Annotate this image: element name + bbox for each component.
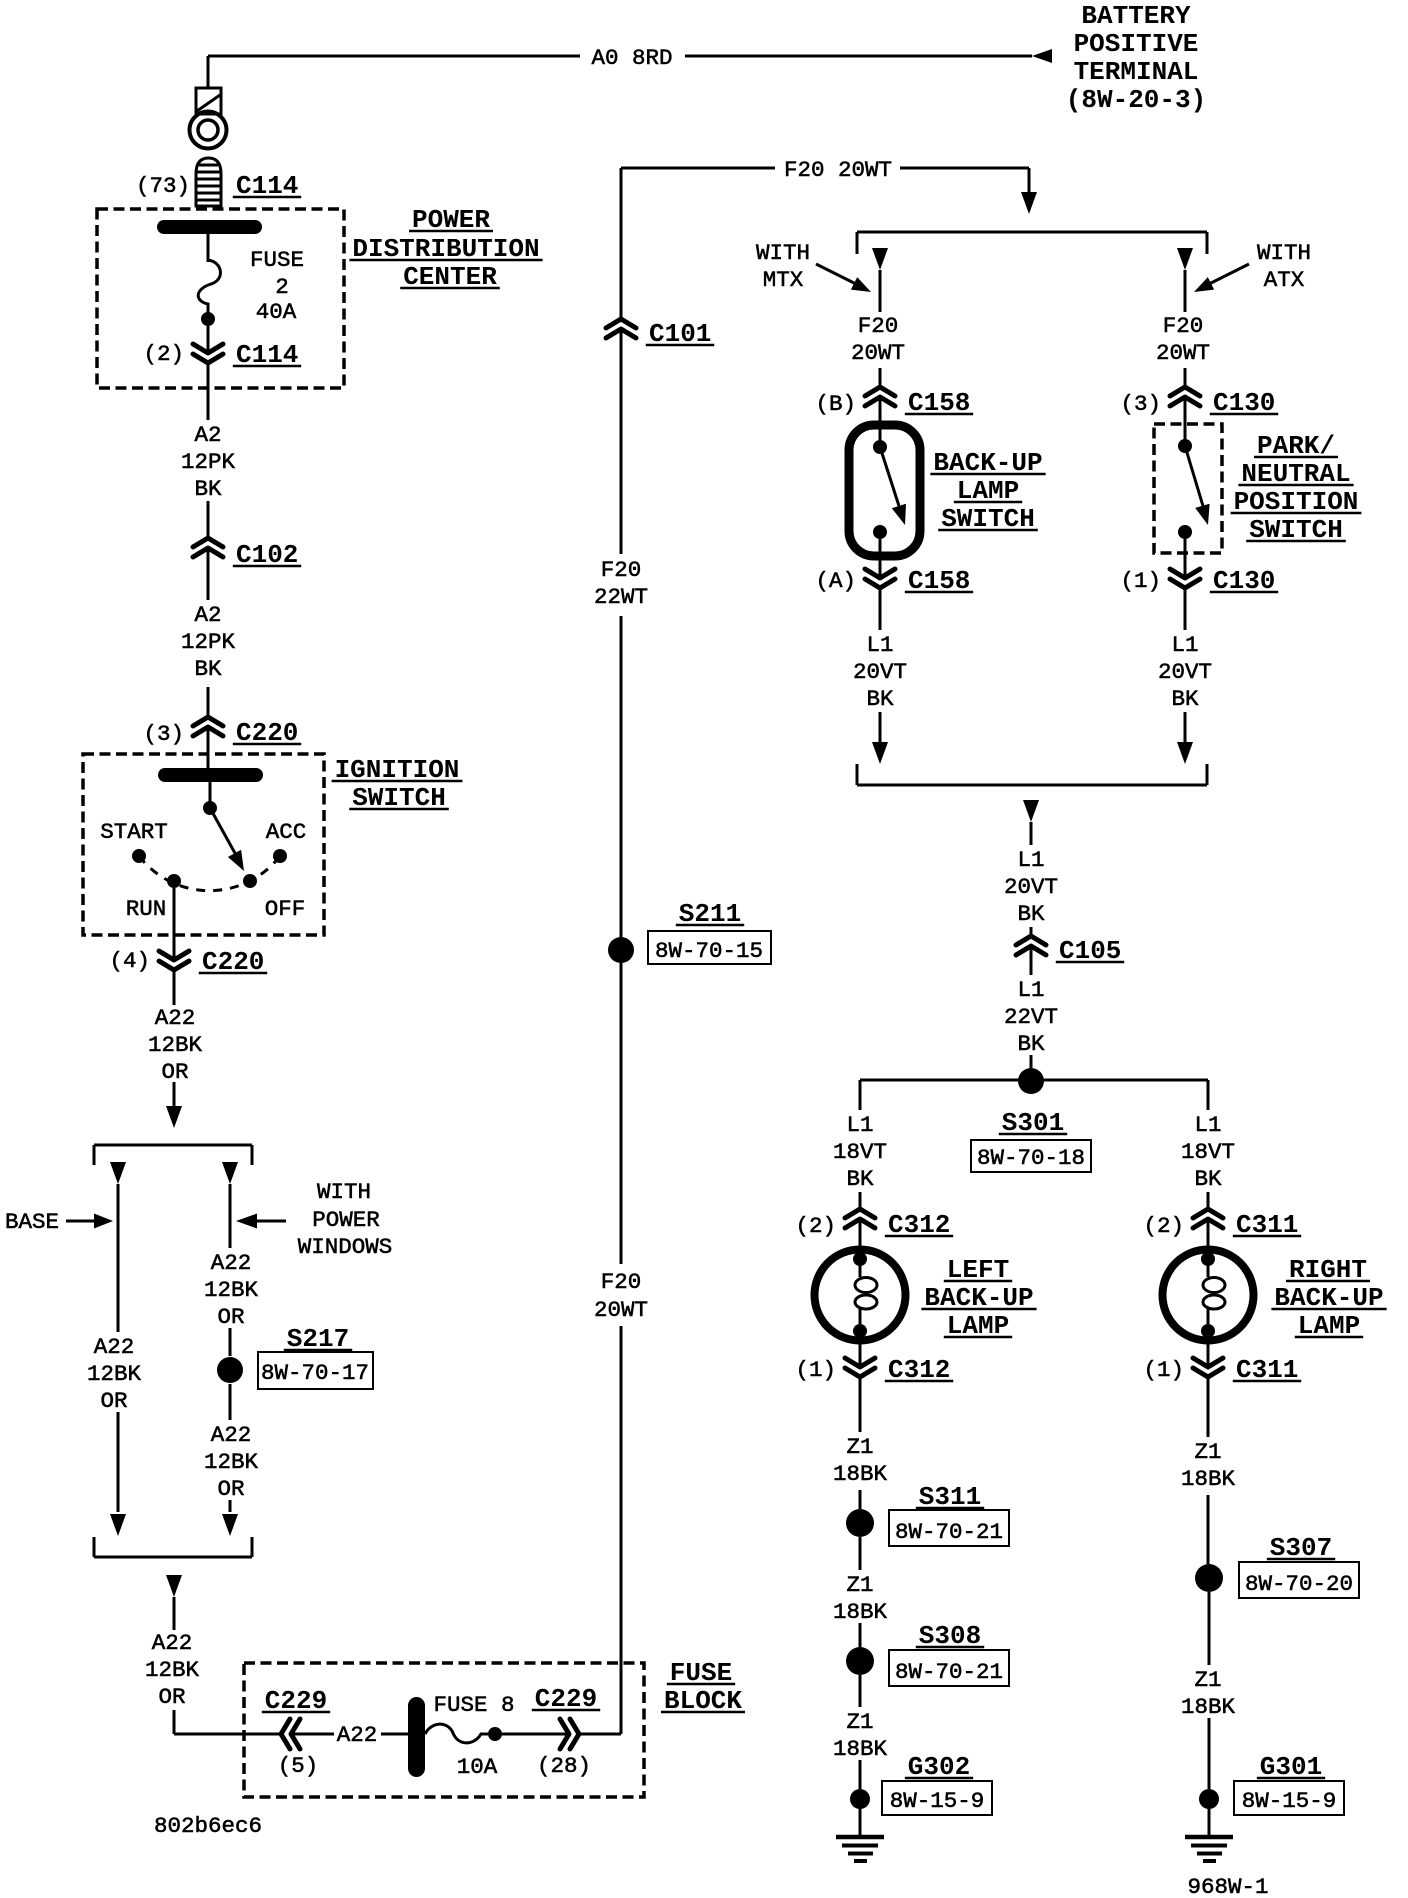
- connector C114 cavity (73) bulkhead symbol: [196, 158, 221, 206]
- label IGNITION SWITCH: [332, 755, 463, 813]
- svg-text:(1): (1): [795, 1357, 836, 1383]
- arrow mtx into lower bus: [872, 742, 888, 764]
- wire G302 to ground: [859, 1809, 862, 1836]
- label ACC: [266, 819, 307, 845]
- arrow atx branch: [1177, 248, 1193, 270]
- svg-text:8W-15-9: 8W-15-9: [1242, 1788, 1337, 1814]
- svg-text:BASE: BASE: [5, 1209, 59, 1235]
- ring terminal eyelet: [190, 112, 227, 149]
- svg-text:(1): (1): [1120, 568, 1161, 594]
- wire F20 20WT branch at top: [621, 168, 1029, 192]
- ground symbol G301: [1185, 1837, 1233, 1861]
- bus bracket mtx/atx bottom: [857, 764, 1207, 785]
- svg-text:Z1: Z1: [846, 1572, 873, 1598]
- svg-text:L1: L1: [1194, 1112, 1221, 1138]
- bus bracket top (base / with power windows): [94, 1145, 252, 1165]
- svg-text:F20: F20: [858, 313, 899, 339]
- splice S307: [1195, 1564, 1223, 1592]
- label (2) C114: [143, 340, 301, 370]
- svg-text:Z1: Z1: [1194, 1667, 1221, 1693]
- connector C101: [606, 319, 636, 338]
- svg-text:L1: L1: [1017, 977, 1044, 1003]
- svg-text:TERMINAL: TERMINAL: [1074, 57, 1199, 87]
- wire C130 into park/neutral switch: [1184, 397, 1187, 440]
- svg-text:802b6ec6: 802b6ec6: [154, 1813, 262, 1839]
- node BATTERY POSITIVE TERMINAL (8W-20-3): [1066, 1, 1206, 115]
- svg-text:18BK: 18BK: [1181, 1694, 1236, 1720]
- right back-up lamp bulb: [1163, 1250, 1254, 1341]
- svg-text:MTX: MTX: [763, 267, 804, 293]
- connector C158 pin (A): [865, 569, 895, 588]
- wire C105 to S301, label L1 22VT BK: [1004, 946, 1058, 1068]
- wire S311 to S308, label Z1 18BK: [833, 1537, 888, 1647]
- svg-text:F20 20WT: F20 20WT: [784, 157, 892, 183]
- wire bracket to fuse block: [174, 1597, 281, 1734]
- svg-text:Z1: Z1: [1194, 1439, 1221, 1465]
- svg-text:L1: L1: [846, 1112, 873, 1138]
- connector C229 pin (28): [560, 1719, 579, 1749]
- svg-text:(2): (2): [143, 341, 184, 367]
- svg-text:12BK: 12BK: [204, 1277, 259, 1303]
- label BACK-UP LAMP SWITCH: [930, 448, 1045, 534]
- label S311 8W-70-21: [889, 1482, 1009, 1546]
- label FUSE BLOCK: [661, 1658, 745, 1716]
- label C229 (5): [262, 1686, 330, 1779]
- ground symbol G302: [836, 1835, 884, 1840]
- connector C220 pin (3): [193, 717, 223, 736]
- right lamp filament: [1203, 1278, 1225, 1325]
- wire C158 down, label L1 20VT BK mtx: [853, 588, 907, 742]
- svg-text:WITH: WITH: [1257, 240, 1311, 266]
- wire A0 8RD from fusible link to battery: [208, 56, 1032, 88]
- connector C311 pin (2): [1193, 1209, 1223, 1228]
- svg-text:968W-1: 968W-1: [1187, 1874, 1268, 1898]
- fuse block bus bar: [408, 1697, 425, 1777]
- arrow base branch bottom: [110, 1514, 126, 1536]
- wire switch to C130 pin 1: [1184, 539, 1187, 578]
- arrow atx into lower bus: [1177, 742, 1193, 764]
- svg-text:F20: F20: [1163, 313, 1204, 339]
- left lamp bottom terminal: [853, 1324, 867, 1338]
- svg-text:ACC: ACC: [266, 819, 307, 845]
- label POWER DISTRIBUTION CENTER: [349, 205, 542, 292]
- svg-text:18BK: 18BK: [833, 1461, 888, 1487]
- label C229 (28): [532, 1684, 600, 1779]
- ground splice G301: [1199, 1789, 1219, 1809]
- svg-text:BK: BK: [1194, 1166, 1222, 1192]
- wire bus bar to rotor: [209, 782, 212, 808]
- svg-text:L1: L1: [866, 632, 893, 658]
- wire C311 to S307, label Z1 18BK: [1181, 1377, 1236, 1564]
- svg-text:8W-70-21: 8W-70-21: [895, 1659, 1003, 1685]
- connector C130 pin (1): [1170, 569, 1200, 588]
- label F20 20WT top: [784, 157, 892, 183]
- wire label A22 12BK OR pw branch lower: [204, 1422, 259, 1502]
- ignition switch box: [83, 754, 324, 935]
- label S211 8W-70-15: [648, 899, 771, 964]
- arrow out of bottom bracket: [166, 1575, 182, 1597]
- label C105: [1056, 936, 1124, 966]
- wire bus bar to fuse 2: [207, 234, 210, 262]
- svg-text:POWER: POWER: [312, 1207, 380, 1233]
- svg-text:OR: OR: [158, 1684, 185, 1710]
- wire S301 to left lamp, label L1 18VT BK: [833, 1080, 887, 1209]
- label S301 8W-70-18: [971, 1108, 1091, 1172]
- svg-text:BK: BK: [1171, 686, 1199, 712]
- svg-text:(3): (3): [143, 721, 184, 747]
- svg-text:BK: BK: [846, 1166, 874, 1192]
- right lamp bottom terminal: [1201, 1324, 1215, 1338]
- label (A) C158: [815, 566, 973, 596]
- label (1) C130: [1120, 566, 1278, 596]
- label (3) C220: [143, 718, 301, 748]
- svg-text:FUSE 8: FUSE 8: [433, 1692, 514, 1718]
- svg-text:OFF: OFF: [265, 896, 306, 922]
- back-up switch bottom contact: [873, 525, 887, 539]
- svg-text:8W-70-20: 8W-70-20: [1245, 1571, 1353, 1597]
- connector C229 pin (5): [281, 1719, 300, 1749]
- svg-text:F20: F20: [601, 1269, 642, 1295]
- label BASE with arrow: [5, 1209, 113, 1235]
- arrow mtx branch: [872, 248, 888, 270]
- label LEFT BACK-UP LAMP: [921, 1255, 1036, 1341]
- svg-text:(B): (B): [815, 391, 856, 417]
- fusible link: [196, 88, 221, 114]
- wire left lamp to C312 pin 1: [859, 1338, 862, 1367]
- wire fuse 2 to C114 pin 2: [207, 326, 210, 353]
- wire G301 to ground: [1208, 1809, 1211, 1836]
- ignition switch rotor contact: [203, 801, 217, 815]
- wire C158 into back-up lamp switch: [879, 397, 882, 440]
- arrow into switch bus: [1021, 192, 1037, 214]
- svg-text:POSITIVE: POSITIVE: [1074, 29, 1199, 59]
- svg-text:12BK: 12BK: [204, 1449, 259, 1475]
- wire C114 to C102: [207, 363, 210, 538]
- connector C105: [1016, 936, 1046, 955]
- svg-text:8W-15-9: 8W-15-9: [890, 1788, 985, 1814]
- wire to C105, label L1 20VT BK: [1004, 822, 1058, 936]
- junction dot after fuse 8: [488, 1727, 502, 1741]
- wire right lamp to C311 pin 1: [1207, 1338, 1210, 1367]
- wire C312 into left lamp: [859, 1219, 862, 1277]
- svg-text:22VT: 22VT: [1004, 1004, 1058, 1030]
- splice S217: [217, 1357, 243, 1383]
- svg-text:40A: 40A: [256, 299, 297, 325]
- svg-text:8W-70-15: 8W-70-15: [655, 938, 763, 964]
- label S308 8W-70-21: [889, 1621, 1009, 1686]
- label A0 8RD: [591, 45, 672, 71]
- wire F20 riser top corner: [620, 168, 623, 319]
- fuse 8 10A element: [425, 1724, 488, 1743]
- wire switch to C158 pin A: [879, 539, 882, 578]
- svg-text:18BK: 18BK: [833, 1736, 888, 1762]
- label G302 8W-15-9: [882, 1752, 992, 1815]
- svg-text:12BK: 12BK: [148, 1032, 203, 1058]
- svg-text:BK: BK: [1017, 901, 1045, 927]
- left lamp filament: [855, 1278, 877, 1325]
- contact ACC: [273, 849, 287, 863]
- svg-text:(73): (73): [136, 173, 190, 199]
- fuse block box: [244, 1663, 644, 1797]
- svg-text:OR: OR: [217, 1304, 244, 1330]
- arrow out of lower bus: [1023, 800, 1039, 822]
- label S217 8W-70-17: [258, 1324, 373, 1389]
- connector C312 pin (2): [845, 1209, 875, 1228]
- svg-text:RUN: RUN: [126, 896, 167, 922]
- park/neutral position switch box: [1154, 424, 1222, 553]
- wire label A22 12BK OR base branch: [87, 1334, 142, 1414]
- wire base branch: [117, 1184, 120, 1512]
- label OFF: [265, 896, 306, 922]
- svg-text:18VT: 18VT: [1181, 1139, 1235, 1165]
- wire S301 distribution bus: [860, 1079, 1208, 1082]
- label (73) C114: [136, 171, 301, 201]
- svg-text:12PK: 12PK: [181, 629, 236, 655]
- wire C220 to splice arrow: [173, 970, 176, 1108]
- bus bar in PDC: [157, 220, 262, 234]
- left back-up lamp bulb: [815, 1250, 906, 1341]
- splice S211: [608, 937, 634, 963]
- splice S311: [846, 1509, 874, 1537]
- label (B) C158: [815, 388, 973, 418]
- wire pw branch lower: [229, 1384, 232, 1512]
- svg-text:20VT: 20VT: [853, 659, 907, 685]
- wire S211 down to fuse block: [620, 963, 623, 1264]
- back-up lamp switch body: [849, 425, 920, 556]
- dashed detent arc: [139, 856, 280, 891]
- wire C312 to S311, label Z1 18BK: [833, 1377, 888, 1509]
- wire S307 to G301, label Z1 18BK: [1181, 1592, 1236, 1789]
- svg-text:(5): (5): [278, 1753, 319, 1779]
- contact START: [132, 849, 146, 863]
- wire atx branch to C130: [1184, 270, 1187, 387]
- left lamp top terminal: [853, 1252, 867, 1266]
- label WITH POWER WINDOWS with arrow: [236, 1179, 392, 1260]
- label (1) C311: [1143, 1355, 1301, 1385]
- arrow base branch: [110, 1162, 126, 1184]
- label RIGHT BACK-UP LAMP: [1271, 1255, 1386, 1341]
- svg-text:BK: BK: [194, 476, 222, 502]
- svg-text:FUSE: FUSE: [250, 247, 304, 273]
- arrow power windows branch: [222, 1162, 238, 1184]
- svg-text:(3): (3): [1120, 391, 1161, 417]
- wire mtx branch to C158: [879, 270, 882, 387]
- connector C130 pin (3): [1170, 387, 1200, 406]
- svg-text:(A): (A): [815, 568, 856, 594]
- wire label F20 20WT mtx: [851, 313, 905, 366]
- wire label A2 12PK BK lower: [181, 602, 236, 682]
- wire C130 down, label L1 20VT BK atx: [1158, 588, 1212, 742]
- splice S308: [846, 1647, 874, 1675]
- arrow pw branch bottom: [222, 1514, 238, 1536]
- svg-text:L1: L1: [1171, 632, 1198, 658]
- svg-text:A22: A22: [155, 1005, 196, 1031]
- right lamp top terminal: [1201, 1252, 1215, 1266]
- arrow at battery positive terminal end: [1032, 49, 1052, 63]
- label 802b6ec6 sheet id: [154, 1813, 262, 1839]
- bus bar in ignition switch: [158, 768, 263, 782]
- label G301 8W-15-9: [1234, 1752, 1344, 1815]
- svg-text:8W-70-17: 8W-70-17: [261, 1360, 369, 1386]
- wire label F20 22WT: [594, 557, 648, 610]
- connector C312 pin (1): [845, 1358, 875, 1377]
- svg-text:20WT: 20WT: [594, 1297, 648, 1323]
- svg-text:A22: A22: [94, 1334, 135, 1360]
- svg-text:F20: F20: [601, 557, 642, 583]
- wire C102 to C220: [207, 548, 210, 717]
- wire S301 to right lamp, label L1 18VT BK: [1181, 1080, 1235, 1209]
- wire C229 to fuse 8, label A22: [291, 1722, 408, 1748]
- svg-text:Z1: Z1: [846, 1434, 873, 1460]
- svg-text:OR: OR: [161, 1059, 188, 1085]
- svg-text:8W-70-18: 8W-70-18: [977, 1145, 1085, 1171]
- svg-text:OR: OR: [217, 1476, 244, 1502]
- svg-text:18BK: 18BK: [833, 1599, 888, 1625]
- bus bracket bottom: [94, 1537, 252, 1557]
- svg-text:BK: BK: [194, 656, 222, 682]
- label C101: [646, 319, 714, 349]
- svg-text:20VT: 20VT: [1004, 874, 1058, 900]
- svg-text:OR: OR: [100, 1388, 127, 1414]
- svg-text:WITH: WITH: [317, 1179, 371, 1205]
- svg-text:L1: L1: [1017, 847, 1044, 873]
- wire label A22 12BK OR pw branch upper: [204, 1250, 259, 1330]
- svg-text:(28): (28): [537, 1753, 591, 1779]
- svg-text:A22: A22: [211, 1250, 252, 1276]
- label WITH ATX with arrow: [1194, 240, 1311, 293]
- wire S308 to G302, label Z1 18BK: [833, 1675, 888, 1789]
- svg-text:BK: BK: [866, 686, 894, 712]
- back-up switch top contact: [873, 440, 887, 454]
- connector C220 pin (4): [159, 951, 189, 970]
- wire label A22 12BK OR: [148, 1005, 203, 1085]
- svg-text:A2: A2: [194, 422, 221, 448]
- svg-text:A22: A22: [211, 1422, 252, 1448]
- svg-text:20WT: 20WT: [851, 340, 905, 366]
- svg-text:A22: A22: [337, 1722, 378, 1748]
- svg-text:ATX: ATX: [1264, 267, 1305, 293]
- svg-text:18BK: 18BK: [1181, 1466, 1236, 1492]
- svg-text:BATTERY: BATTERY: [1081, 1, 1191, 31]
- contact OFF: [243, 874, 257, 888]
- label C102: [233, 540, 301, 570]
- fuse 2 40A element: [198, 260, 220, 313]
- svg-text:A2: A2: [194, 602, 221, 628]
- bus bracket mtx/atx top: [857, 232, 1207, 254]
- park/neutral bottom contact: [1178, 525, 1192, 539]
- label PARK/NEUTRAL POSITION SWITCH: [1231, 431, 1362, 545]
- label S307 8W-70-20: [1239, 1533, 1359, 1598]
- svg-text:(4): (4): [109, 948, 150, 974]
- wire label F20 20WT atx: [1156, 313, 1210, 366]
- wire RUN contact to C220 pin 4: [173, 888, 176, 960]
- svg-text:12BK: 12BK: [87, 1361, 142, 1387]
- svg-text:10A: 10A: [457, 1754, 498, 1780]
- wire label A22 12BK OR to fuse block: [145, 1630, 200, 1710]
- label (4) C220: [109, 947, 267, 977]
- svg-text:WINDOWS: WINDOWS: [298, 1234, 393, 1260]
- wire power windows branch upper: [229, 1184, 232, 1356]
- park/neutral wiper arm: [1185, 446, 1210, 525]
- svg-text:Z1: Z1: [846, 1709, 873, 1735]
- wire label F20 20WT lower: [594, 1269, 648, 1323]
- park/neutral top contact: [1178, 439, 1192, 453]
- svg-text:20VT: 20VT: [1158, 659, 1212, 685]
- svg-text:START: START: [100, 819, 168, 845]
- connector C158 pin (B): [865, 387, 895, 406]
- svg-text:12PK: 12PK: [181, 449, 236, 475]
- wire label A2 12PK BK upper: [181, 422, 236, 502]
- ground splice G302: [850, 1789, 870, 1809]
- svg-text:20WT: 20WT: [1156, 340, 1210, 366]
- svg-text:(2): (2): [1143, 1213, 1184, 1239]
- svg-text:BK: BK: [1017, 1031, 1045, 1057]
- label (2) C311: [1143, 1210, 1301, 1240]
- svg-text:WITH: WITH: [756, 240, 810, 266]
- label 968W-1: [1187, 1874, 1268, 1898]
- wire C229 pin 28 up to F20 circuit: [579, 1326, 621, 1734]
- wire C101 down to S211: [620, 329, 623, 937]
- svg-text:A0 8RD: A0 8RD: [591, 45, 672, 71]
- svg-text:(1): (1): [1143, 1357, 1184, 1383]
- svg-text:22WT: 22WT: [594, 584, 648, 610]
- svg-text:(8W-20-3): (8W-20-3): [1066, 85, 1206, 115]
- label WITH MTX with arrow: [756, 240, 871, 293]
- label (2) C312: [795, 1210, 953, 1240]
- label (3) C130: [1120, 388, 1278, 418]
- svg-text:A22: A22: [152, 1630, 193, 1656]
- back-up switch wiper arm: [880, 447, 906, 525]
- wire C220 to ignition switch: [207, 727, 210, 768]
- svg-text:12BK: 12BK: [145, 1657, 200, 1683]
- label START: [100, 819, 168, 845]
- label FUSE 8 10A: [433, 1692, 514, 1780]
- connector C114 pin (2): [193, 344, 223, 363]
- label (1) C312: [795, 1355, 953, 1385]
- ignition switch wiper arm: [210, 808, 244, 871]
- connector C102: [193, 538, 223, 557]
- svg-text:18VT: 18VT: [833, 1139, 887, 1165]
- svg-text:(2): (2): [795, 1213, 836, 1239]
- arrow into base/power-windows bus: [166, 1106, 182, 1128]
- connector C311 pin (1): [1193, 1358, 1223, 1377]
- label FUSE 2 40A: [250, 247, 304, 325]
- svg-text:2: 2: [275, 274, 289, 300]
- power distribution center box: [97, 209, 344, 388]
- label RUN: [126, 896, 167, 922]
- wire C311 into right lamp: [1207, 1219, 1210, 1277]
- contact RUN: [167, 874, 181, 888]
- wire fuse 8 to C229 pin 28: [502, 1733, 569, 1736]
- junction dot below fuse 2: [201, 312, 215, 326]
- svg-text:8W-70-21: 8W-70-21: [895, 1519, 1003, 1545]
- splice S301: [1018, 1068, 1044, 1094]
